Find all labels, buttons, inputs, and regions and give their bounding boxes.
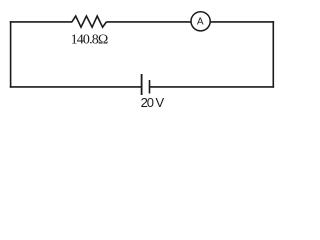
wire: bottom-right segment <box>150 86 275 88</box>
battery <box>142 74 150 95</box>
wire: bottom-left segment <box>10 86 142 88</box>
wire: top-left segment <box>10 21 72 23</box>
wire: top-right segment <box>210 21 274 23</box>
wire: right segment <box>272 21 274 88</box>
ammeter A <box>191 12 210 31</box>
resistor <box>72 16 107 27</box>
svg-text:140.8Ω: 140.8Ω <box>71 32 108 47</box>
svg-text:20 V: 20 V <box>141 95 165 110</box>
wire: top-middle segment <box>106 21 191 23</box>
svg-text:A: A <box>197 17 204 28</box>
wire: left segment <box>10 21 12 88</box>
